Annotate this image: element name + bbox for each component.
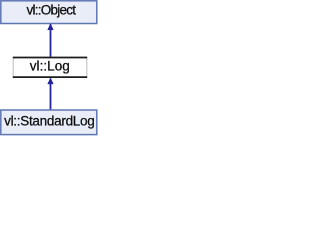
class box vl::StandardLog [1, 110, 97, 135]
class box vl::Log (current class) [13, 57, 87, 77]
svg-text:vl::Object: vl::Object [27, 3, 77, 18]
inheritance arrow vl::StandardLog to vl::Log [48, 78, 54, 110]
inheritance arrow vl::Log to vl::Object [48, 24, 54, 57]
class box vl::Object [1, 1, 97, 24]
svg-text:vl::Log: vl::Log [30, 59, 70, 74]
svg-text:vl::StandardLog: vl::StandardLog [4, 113, 94, 128]
